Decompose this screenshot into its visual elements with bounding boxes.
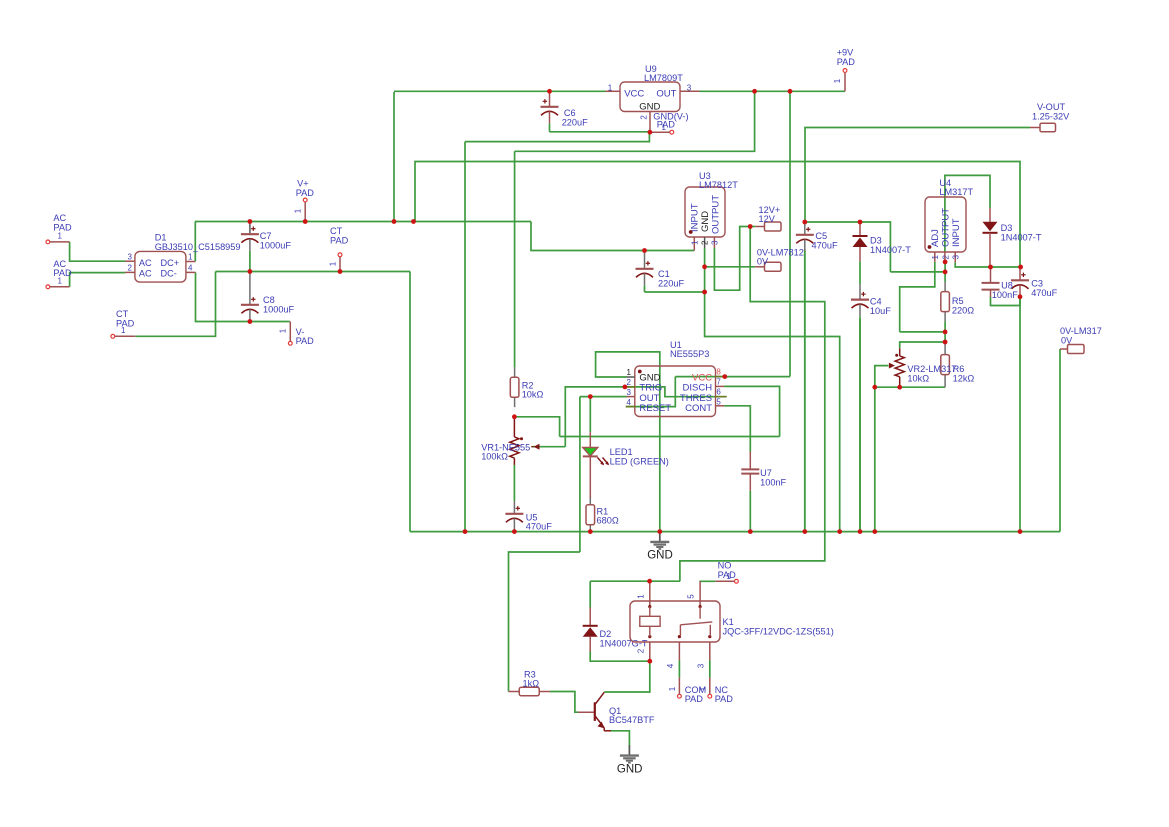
- wire AC pad2 to D1 pin2: [70, 273, 125, 287]
- svg-text:DC-: DC-: [161, 268, 177, 278]
- resistor R2: [514, 367, 516, 377]
- junction GND rail C4: [858, 529, 863, 534]
- svg-text:3: 3: [128, 252, 133, 261]
- svg-text:LED1: LED1: [610, 447, 633, 457]
- wire C6 bottom to U9 GND: [550, 131, 650, 133]
- svg-text:5: 5: [687, 594, 696, 599]
- junction GND rail 0V line: [837, 529, 842, 534]
- junction VR2 bottom: [897, 385, 902, 390]
- port 0V-LM7812: [765, 262, 782, 271]
- pad AC 1: [46, 240, 50, 244]
- svg-text:3: 3: [687, 84, 692, 93]
- wire AC pad1 to D1 pin3: [70, 242, 125, 261]
- wire VR2 wiper: [875, 366, 889, 388]
- svg-text:1kΩ: 1kΩ: [523, 679, 540, 689]
- wire GND long rail y=161.5: [415, 162, 1020, 268]
- wire GND bottom rail y=531.6: [410, 531, 1060, 533]
- svg-text:1: 1: [637, 594, 646, 599]
- wire DC- rail y=271.5: [216, 271, 411, 273]
- pad COM: [678, 694, 682, 698]
- wire 12V+ feed to relay coil: [680, 227, 825, 582]
- wire LED anode from OUT: [589, 397, 591, 433]
- svg-text:2: 2: [701, 240, 710, 245]
- junction GND rail C3: [1018, 529, 1023, 534]
- junction C7 bottom: [248, 269, 253, 274]
- svg-text:100kΩ: 100kΩ: [481, 452, 508, 462]
- junction U4 pin2 upper: [943, 260, 948, 265]
- svg-text:4: 4: [666, 663, 675, 668]
- svg-text:3: 3: [952, 255, 961, 260]
- port 0V-LM317: [1068, 345, 1085, 354]
- wire D3 anode to C4: [859, 261, 861, 284]
- capacitor C1: [644, 251, 646, 269]
- svg-text:220uF: 220uF: [658, 279, 684, 289]
- svg-text:AC: AC: [139, 258, 152, 268]
- svg-text:OUTPUT: OUTPUT: [711, 195, 722, 234]
- svg-text:RESET: RESET: [639, 403, 671, 414]
- capacitor C4: [859, 284, 861, 299]
- junction C1 bottom: [702, 290, 707, 295]
- svg-text:1: 1: [690, 240, 699, 245]
- ground symbol at Q1: [628, 745, 630, 755]
- diode D3 near U4: [989, 208, 991, 222]
- wire NO pad to relay pin5: [699, 580, 715, 582]
- svg-text:1: 1: [627, 368, 632, 377]
- svg-text:C4: C4: [870, 297, 882, 307]
- wire DC+ to U3 input: [531, 222, 694, 251]
- wire U3 GND down and 0V line y=336.5: [705, 248, 840, 532]
- svg-text:PAD: PAD: [715, 694, 734, 704]
- wire NE555 pin1 GND loop: [596, 352, 660, 532]
- wire +9V to R2 top x=514.6: [514, 151, 516, 367]
- wire relay pin2 to Q1 collector: [604, 661, 650, 692]
- resistor R3: [509, 691, 520, 693]
- wire C1 bottom to U3 GND: [645, 291, 705, 293]
- svg-text:INPUT: INPUT: [951, 218, 962, 247]
- svg-text:OUTPUT: OUTPUT: [941, 208, 952, 247]
- wire R3 left to NE555 OUT net: [509, 552, 580, 692]
- wire D1 pin1 riser: [194, 222, 196, 262]
- wire U3 OUTPUT to 12V+ junction: [714, 227, 750, 291]
- capacitor U7: [749, 452, 751, 469]
- svg-text:470uF: 470uF: [526, 521, 552, 531]
- capacitor C3: [1019, 267, 1021, 280]
- junction C8 bottom: [248, 319, 253, 324]
- wire DC- drop to GND rail x=410: [409, 272, 411, 532]
- svg-text:12kΩ: 12kΩ: [953, 374, 975, 384]
- wire LM317 input top link: [805, 222, 891, 272]
- pad CT lower: [111, 334, 115, 338]
- svg-text:10kΩ: 10kΩ: [522, 390, 544, 400]
- svg-text:D2: D2: [600, 629, 612, 639]
- svg-text:0V: 0V: [1061, 335, 1073, 345]
- bridge rectifier D1: [135, 251, 186, 282]
- junction GND rail U5: [512, 529, 517, 534]
- svg-text:470uF: 470uF: [1031, 288, 1057, 298]
- port 12V+: [765, 222, 782, 231]
- potentiometer VR2: [899, 348, 901, 356]
- svg-text:INPUT: INPUT: [690, 203, 701, 232]
- capacitor U5: [513, 465, 515, 501]
- svg-text:PAD: PAD: [685, 694, 704, 704]
- pad GND(V-) at U9: [670, 130, 674, 134]
- wire U4 OUTPUT over box to D3: [945, 175, 990, 252]
- ground symbol main: [659, 532, 661, 542]
- wire C3 bottom to GND rail: [1019, 297, 1021, 532]
- svg-text:1: 1: [58, 276, 63, 285]
- svg-text:4: 4: [188, 264, 193, 273]
- junction C5 top: [802, 220, 807, 225]
- wire +9V to NE555 VCC x=790: [789, 91, 791, 376]
- junction GND rail R1: [588, 529, 593, 534]
- relay K1: [630, 601, 720, 642]
- svg-text:C5: C5: [815, 231, 827, 241]
- wire NE555 OUT row: [580, 396, 627, 398]
- pad CT middle: [338, 253, 342, 257]
- svg-text:100nF: 100nF: [760, 478, 786, 488]
- wire CT pad to DC- rail: [135, 272, 215, 337]
- svg-text:2: 2: [637, 648, 646, 653]
- LED LED1: [589, 432, 591, 447]
- wire 0V-LM317 riser x=1060: [1059, 349, 1061, 532]
- svg-text:C7: C7: [260, 231, 272, 241]
- pad V-: [288, 341, 292, 345]
- svg-text:1000uF: 1000uF: [263, 305, 295, 315]
- svg-text:R5: R5: [952, 296, 964, 306]
- svg-text:LM317T: LM317T: [939, 187, 973, 197]
- wire VR1 wiper: [531, 446, 565, 448]
- svg-text:GND: GND: [617, 764, 643, 776]
- junction V+ pad: [303, 219, 308, 224]
- pad +9V: [843, 69, 847, 73]
- junction R5 bottom: [943, 330, 948, 335]
- junction C7 top: [248, 219, 253, 224]
- svg-text:2: 2: [639, 115, 648, 120]
- diode D2: [589, 608, 591, 626]
- junction GND rail x465: [463, 529, 468, 534]
- wire C5 bottom to GND rail: [804, 249, 806, 532]
- junction relay coil top D2: [647, 579, 652, 584]
- junction GND rail riser: [411, 219, 416, 224]
- svg-text:C8: C8: [263, 295, 275, 305]
- svg-text:D3: D3: [1001, 223, 1013, 233]
- wire VR2 bottom row y=387.2: [875, 386, 945, 388]
- junction D3 top: [858, 220, 863, 225]
- regulator U4 LM317T: [925, 197, 966, 252]
- svg-text:10uF: 10uF: [870, 306, 891, 316]
- resistor R5: [944, 282, 946, 292]
- wire +9V branch down x=755: [515, 91, 755, 151]
- wire VR2 net to GND rail: [874, 387, 876, 531]
- junction R2 bottom VR1 top: [512, 414, 517, 419]
- svg-text:0V: 0V: [757, 257, 769, 267]
- junction relay pin2 D2: [647, 659, 652, 664]
- wire GND drop x=465: [464, 142, 466, 532]
- svg-text:220uF: 220uF: [562, 118, 588, 128]
- wire LM317 OUT row y=271.9: [890, 271, 945, 273]
- junction R6 top: [943, 340, 948, 345]
- wire NE555 DISCH branch: [724, 386, 780, 436]
- svg-text:PAD: PAD: [53, 222, 72, 232]
- wire D1 pin4 to C8 bottom and V- pad: [196, 272, 290, 321]
- svg-text:1: 1: [188, 252, 193, 261]
- junction C3 top: [1018, 265, 1023, 270]
- svg-text:1N4007-T: 1N4007-T: [870, 245, 911, 255]
- svg-text:LED (GREEN): LED (GREEN): [610, 457, 669, 467]
- svg-text:10kΩ: 10kΩ: [907, 374, 929, 384]
- wire GND feed y=141.6: [465, 132, 649, 141]
- relay K1 contacts: [679, 625, 681, 637]
- svg-text:LM7809T: LM7809T: [644, 73, 683, 83]
- wire D2 bottom to relay pin2: [590, 652, 650, 662]
- junction U3 GND 0V port: [702, 264, 707, 269]
- pad AC 2: [46, 285, 50, 289]
- svg-text:12V: 12V: [759, 214, 776, 224]
- junction GND rail symbol: [657, 529, 662, 534]
- svg-text:3: 3: [711, 240, 720, 245]
- svg-text:DC+: DC+: [161, 258, 180, 268]
- svg-text:NE555P3: NE555P3: [670, 349, 709, 359]
- svg-text:7: 7: [716, 378, 721, 387]
- svg-text:OUT: OUT: [656, 89, 676, 100]
- svg-text:2: 2: [627, 378, 632, 387]
- wire C4 bottom to GND rail: [859, 319, 861, 532]
- diode D3 near C4: [859, 222, 861, 236]
- svg-text:1N4007G-T: 1N4007G-T: [600, 639, 648, 649]
- capacitor C6: [549, 91, 551, 106]
- wire TRIG left branch: [565, 387, 625, 447]
- svg-text:1: 1: [329, 261, 338, 266]
- wire NE555 VCC row to +9V: [675, 376, 790, 378]
- potentiometer VR1: [513, 417, 515, 437]
- junction U1 VCC: [722, 374, 727, 379]
- svg-text:LM7812T: LM7812T: [699, 180, 738, 190]
- svg-text:GND: GND: [647, 550, 673, 562]
- wire TRIG/DISCH row y=436.5: [560, 436, 780, 438]
- wire R5 bottom junctions: [944, 321, 946, 342]
- svg-text:1: 1: [699, 686, 708, 691]
- resistor R1: [589, 498, 591, 505]
- wire DC+ rail y=221.5: [195, 221, 531, 223]
- svg-text:VCC: VCC: [624, 89, 644, 100]
- junction CT pad: [338, 269, 343, 274]
- svg-text:PAD: PAD: [296, 336, 315, 346]
- svg-text:680Ω: 680Ω: [597, 516, 619, 526]
- wire R3 right to Q1 base: [550, 692, 578, 713]
- svg-text:2: 2: [941, 255, 950, 260]
- svg-text:3: 3: [696, 663, 705, 668]
- wire U3 GND to 0V-LM7812 port: [705, 266, 756, 268]
- wire NE555 TRIG to THRES jog: [625, 387, 727, 397]
- wire U8 bottom jog: [991, 297, 1021, 306]
- wire V+ top rail into U9 VCC: [394, 90, 606, 92]
- pad NC: [708, 694, 712, 698]
- node R5-R6 link: [900, 342, 945, 348]
- regulator U9 LM7809T: [620, 82, 680, 112]
- svg-text:CONT: CONT: [685, 403, 712, 414]
- svg-text:1: 1: [121, 326, 126, 335]
- svg-text:1: 1: [727, 572, 732, 581]
- svg-text:C1: C1: [658, 269, 670, 279]
- svg-text:K1: K1: [723, 617, 734, 627]
- svg-text:1: 1: [294, 208, 303, 213]
- transistor Q1 BC547BTF: [578, 711, 594, 713]
- svg-text:3: 3: [627, 388, 632, 397]
- svg-text:U7: U7: [760, 468, 772, 478]
- junction U1 TRIG: [623, 385, 628, 390]
- wire vertical V+ riser x=394: [393, 92, 395, 222]
- port V-OUT: [1040, 123, 1056, 132]
- svg-text:PAD: PAD: [330, 236, 349, 246]
- wire NE555 VCC to RESET jog: [626, 377, 676, 407]
- capacitor C5: [804, 222, 806, 234]
- wire NE555 OUT drop x=579.9: [579, 397, 581, 552]
- junction GND rail C5: [802, 529, 807, 534]
- svg-text:1: 1: [833, 78, 842, 83]
- capacitor C8: [249, 272, 251, 305]
- wire U7 bottom to GND rail: [749, 491, 751, 532]
- svg-text:1000uF: 1000uF: [260, 241, 292, 251]
- svg-text:C6: C6: [564, 108, 576, 118]
- junction U4 pin2 lower: [943, 270, 948, 275]
- wire U9 OUT to +9V rail: [700, 90, 846, 92]
- svg-text:C3: C3: [1031, 279, 1043, 289]
- svg-text:PAD: PAD: [53, 268, 72, 278]
- svg-text:GND: GND: [700, 211, 711, 232]
- svg-text:JQC-3FF/12VDC-1ZS(551): JQC-3FF/12VDC-1ZS(551): [723, 627, 834, 637]
- svg-text:1.25-32V: 1.25-32V: [1032, 111, 1070, 121]
- junction U9 GND pin2: [648, 130, 653, 135]
- svg-text:GBJ3510_C5158959: GBJ3510_C5158959: [155, 242, 241, 252]
- svg-text:1: 1: [668, 686, 677, 691]
- resistor R6: [944, 342, 946, 355]
- wire U4 pin2 down to R5: [944, 262, 946, 282]
- junction C1 top: [642, 248, 647, 253]
- junction +9V rail A: [752, 89, 757, 94]
- capacitor C7: [249, 222, 251, 234]
- wire NE555 CONT to U7: [724, 406, 750, 452]
- wire V-OUT line: [805, 128, 1030, 223]
- wire Q1 emitter to ground: [611, 731, 629, 746]
- svg-text:1: 1: [931, 255, 940, 260]
- svg-text:1: 1: [58, 232, 63, 241]
- svg-text:4: 4: [627, 398, 632, 407]
- pad NO at relay: [735, 579, 739, 583]
- junction VR2 wiper net: [872, 385, 877, 390]
- svg-text:D1: D1: [155, 233, 167, 243]
- svg-text:BC547BTF: BC547BTF: [609, 715, 655, 725]
- junction V+ riser: [392, 219, 397, 224]
- wire R5 bottom to VR2 top: [900, 331, 945, 333]
- wire U4 ADJ to divider: [900, 262, 935, 332]
- junction 12V+ port: [748, 224, 753, 229]
- pad V+: [303, 198, 307, 202]
- svg-text:1: 1: [662, 123, 667, 132]
- svg-text:U8: U8: [1001, 281, 1013, 291]
- svg-text:100nF: 100nF: [992, 290, 1018, 300]
- svg-text:8: 8: [716, 368, 721, 377]
- timer U1 NE555P3: [635, 366, 716, 417]
- junction GND rail U7: [748, 529, 753, 534]
- junction U1 OUT: [588, 394, 593, 399]
- svg-text:1: 1: [608, 84, 613, 93]
- wire relay coil top y=581.2: [590, 580, 680, 582]
- junction +9V rail B: [788, 89, 793, 94]
- relay K1 coil: [640, 616, 660, 626]
- svg-text:2: 2: [128, 264, 133, 273]
- wire U4 INPUT row y=267: [955, 262, 1020, 267]
- svg-text:AC: AC: [139, 268, 152, 278]
- svg-text:D3: D3: [870, 236, 882, 246]
- svg-text:PAD: PAD: [657, 120, 676, 130]
- svg-text:6: 6: [716, 388, 721, 397]
- svg-text:1N4007-T: 1N4007-T: [1001, 233, 1042, 243]
- wire R2 bottom to TRIG net: [515, 417, 560, 437]
- capacitor U8: [990, 267, 992, 282]
- wire D2 top lead: [589, 581, 591, 607]
- svg-text:PAD: PAD: [296, 188, 315, 198]
- svg-text:PAD: PAD: [837, 57, 856, 67]
- junction C3 bottom: [1018, 294, 1023, 299]
- junction GND rail VR2: [872, 529, 877, 534]
- svg-text:220Ω: 220Ω: [952, 306, 974, 316]
- wire 12V+ stub to port: [750, 226, 755, 228]
- junction D3 cathode U8 top: [988, 265, 993, 270]
- svg-text:1: 1: [279, 328, 288, 333]
- junction C6 top: [547, 89, 552, 94]
- svg-text:470uF: 470uF: [812, 241, 838, 251]
- regulator U3 LM7812T: [685, 187, 725, 237]
- svg-text:5: 5: [716, 398, 721, 407]
- svg-text:VR2-LM317: VR2-LM317: [907, 364, 956, 374]
